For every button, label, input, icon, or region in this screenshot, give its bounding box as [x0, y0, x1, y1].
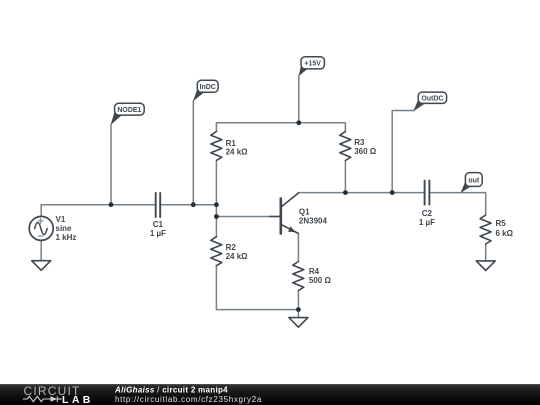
footer logo wire-resistor-diode glyph	[23, 396, 62, 402]
svg-text:Q1: Q1	[299, 207, 310, 216]
wire NODE1 flag stem	[110, 125, 112, 205]
wire R3 bottom lead to collector rail	[344, 161, 346, 193]
label R2 value: R2 / 24 kOhm	[226, 243, 249, 261]
svg-text:R2: R2	[226, 243, 237, 252]
svg-text:1 µF: 1 µF	[150, 229, 166, 238]
junction node base tap	[214, 214, 219, 219]
wire C2 right plate to R5	[429, 193, 485, 215]
junction node +15V on rail	[296, 120, 301, 125]
junction node R3/collector	[343, 190, 348, 195]
ground under V1	[32, 261, 51, 271]
svg-text:R3: R3	[354, 138, 365, 147]
wire collector rail to C2 left plate	[298, 192, 424, 194]
wire main input (V1 to C1 left plate)	[41, 204, 156, 206]
junction node OutDC on collector rail	[390, 190, 395, 195]
capacitor C2	[425, 181, 430, 205]
label C1 value: C1 / 1 uF	[150, 220, 166, 238]
svg-text:http://circuitlab.com/cfz235hx: http://circuitlab.com/cfz235hxgry2a	[115, 395, 262, 404]
wire R4 bottom to ground node	[297, 291, 299, 310]
label Q1 value: Q1 / 2N3904	[299, 207, 328, 225]
wire R1 bottom lead to input node	[215, 161, 217, 205]
label R4 value: R4 / 500 Ohm	[309, 267, 332, 285]
svg-text:+15V: +15V	[304, 60, 321, 67]
svg-text:sine: sine	[56, 224, 73, 233]
junction node emitter ground	[296, 307, 301, 312]
wire R5 bottom to ground	[485, 244, 487, 261]
node flag OutDC	[413, 92, 446, 111]
svg-text:C2: C2	[422, 209, 433, 218]
ground under R5	[476, 261, 495, 271]
resistor R2	[211, 237, 222, 266]
resistor R4	[293, 262, 304, 291]
svg-text:OutDC: OutDC	[421, 95, 443, 102]
svg-text:R1: R1	[226, 139, 237, 148]
wire C1 right plate to R1/R2 node	[160, 204, 216, 206]
wire Q1 emitter to R4	[297, 234, 299, 262]
wire V1 top lead to main input wire	[40, 205, 42, 217]
wire Q1 base	[216, 216, 279, 218]
wire ground node stub under R2/R4	[297, 310, 299, 318]
junction node InDC on input wire	[191, 202, 196, 207]
wire input node to R2 top / base tap	[215, 205, 217, 237]
svg-text:AliGhaiss / circuit 2 manip4: AliGhaiss / circuit 2 manip4	[114, 386, 228, 395]
svg-text:R4: R4	[309, 267, 320, 276]
wire +15V supply stem	[298, 76, 300, 123]
svg-text:1 kHz: 1 kHz	[56, 233, 77, 242]
svg-text:NODE1: NODE1	[117, 107, 141, 114]
wire R2 bottom to ground rail	[216, 266, 298, 310]
svg-text:24 kΩ: 24 kΩ	[226, 148, 249, 157]
wire InDC flag stem	[192, 101, 194, 205]
transistor Q1 2N3904	[270, 193, 298, 234]
svg-text:InDC: InDC	[200, 84, 216, 91]
wire OutDC flag stem	[392, 111, 414, 193]
resistor R5	[480, 215, 491, 244]
capacitor C1	[156, 193, 161, 217]
label R3 value: R3 / 360 Ohm	[354, 138, 377, 156]
ground under R2/R4 node	[289, 318, 308, 328]
svg-text:500 Ω: 500 Ω	[309, 276, 332, 285]
svg-text:out: out	[468, 177, 480, 184]
svg-text:LAB: LAB	[62, 394, 94, 405]
node flag out	[461, 173, 483, 193]
resistor R3	[340, 132, 351, 161]
node flag InDC	[193, 80, 218, 101]
junction node input at R1/R2	[214, 202, 219, 207]
svg-text:360 Ω: 360 Ω	[354, 147, 377, 156]
wire V1 bottom lead to ground	[40, 240, 42, 260]
svg-text:R5: R5	[496, 219, 507, 228]
svg-text:V1: V1	[56, 215, 66, 224]
label R5 value: R5 / 6 kOhm	[496, 219, 514, 238]
junction node NODE1 on input wire	[109, 202, 114, 207]
svg-text:6 kΩ: 6 kΩ	[496, 229, 514, 238]
svg-text:2N3904: 2N3904	[299, 217, 328, 226]
power flag +15V	[299, 57, 325, 76]
label R1 value: R1 / 24 kOhm	[226, 139, 249, 157]
svg-text:C1: C1	[153, 220, 164, 229]
resistor R1	[211, 132, 222, 161]
wire top rail R1 to R3	[216, 123, 345, 132]
voltage source V1	[29, 216, 53, 240]
svg-text:1 µF: 1 µF	[419, 218, 435, 227]
footer bar	[0, 384, 540, 405]
node flag NODE1	[111, 103, 145, 125]
label V1 value: V1 / sine / 1 kHz	[56, 215, 77, 242]
svg-text:24 kΩ: 24 kΩ	[226, 252, 249, 261]
label C2 value: C2 / 1 uF	[419, 209, 435, 227]
